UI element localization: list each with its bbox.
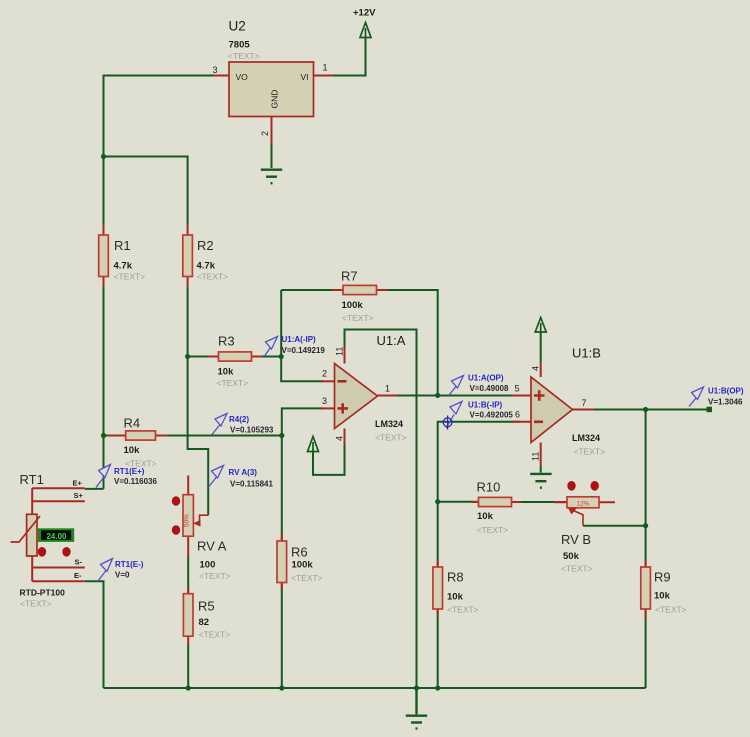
node rail/R2 branch bbox=[101, 154, 106, 159]
pin U2.2 bbox=[271, 117, 273, 144]
resistor R10 bbox=[479, 497, 512, 506]
svg-text:3: 3 bbox=[322, 396, 327, 406]
svg-text:<TEXT>: <TEXT> bbox=[574, 447, 606, 457]
svg-text:R6: R6 bbox=[291, 545, 308, 560]
svg-text:RV B: RV B bbox=[561, 532, 591, 547]
wire bottom ground rail bbox=[104, 687, 646, 689]
wire branch rail to R2 top bbox=[104, 157, 188, 225]
wire RVB wiper to R9 rail bbox=[583, 525, 646, 527]
pin R1 stubs bbox=[103, 225, 105, 288]
arrow R4(2) bbox=[212, 425, 220, 435]
svg-text:50%: 50% bbox=[184, 514, 191, 527]
wire R2 bottom down to R3 node and crossing R4 wire to RVA jog bbox=[188, 287, 209, 515]
pin U1:A.11 bbox=[344, 347, 346, 364]
op-amp U1:A bbox=[335, 364, 378, 429]
svg-text:<TEXT>: <TEXT> bbox=[217, 378, 249, 388]
RVB wiper arrowhead bbox=[568, 508, 577, 515]
wire pin6 line bbox=[438, 422, 520, 502]
svg-text:3: 3 bbox=[213, 65, 218, 75]
svg-text:V=0.105293: V=0.105293 bbox=[230, 426, 274, 435]
pin U2.1 bbox=[314, 75, 334, 77]
node R5/bottom bbox=[186, 685, 191, 690]
resistor R7 bbox=[343, 285, 377, 294]
svg-text:VO: VO bbox=[236, 72, 249, 82]
wire U2 pin1 to +12V bbox=[333, 38, 366, 76]
wire R9 bottom to bottom rail bbox=[645, 609, 647, 688]
svg-text:R1: R1 bbox=[114, 238, 131, 253]
node gnd/bottom bbox=[414, 685, 419, 690]
svg-text:U1:B: U1:B bbox=[572, 346, 601, 361]
svg-text:V=0.116036: V=0.116036 bbox=[114, 477, 157, 486]
svg-text:R3: R3 bbox=[218, 334, 235, 349]
wire RVA bottom to R5 bbox=[187, 557, 189, 594]
svg-text:R4: R4 bbox=[124, 416, 141, 431]
resistor R2 bbox=[183, 235, 193, 277]
pin R6 stubs bbox=[281, 533, 283, 590]
power arrow U1:A supply bbox=[308, 437, 319, 452]
svg-text:<TEXT>: <TEXT> bbox=[199, 571, 231, 581]
opamp B minus bbox=[534, 420, 543, 423]
node rail/R4 bbox=[101, 433, 106, 438]
wire E- down bbox=[85, 581, 104, 688]
regulator U2 body bbox=[229, 62, 314, 117]
RT1 display screen bbox=[41, 530, 71, 540]
wire U1:B output bbox=[594, 409, 709, 411]
resistor R8 bbox=[433, 567, 443, 609]
pin RT1 S- bbox=[32, 567, 85, 569]
wire U2 pin3 to left rail bbox=[104, 76, 214, 489]
svg-text:V=0.115841: V=0.115841 bbox=[230, 480, 273, 489]
svg-text:RV A(3): RV A(3) bbox=[229, 468, 258, 477]
svg-text:U1:A(-IP): U1:A(-IP) bbox=[282, 335, 317, 344]
wire U1:B pin11 down bbox=[540, 466, 542, 473]
node R8/bottom bbox=[435, 685, 440, 690]
potentiometer RVA body bbox=[183, 495, 193, 537]
arrow U1:B(OP) bbox=[689, 398, 697, 407]
svg-text:5: 5 bbox=[515, 384, 520, 394]
arrow RV A(3) bbox=[209, 477, 217, 487]
svg-text:S+: S+ bbox=[74, 491, 84, 500]
opamp A plus bbox=[338, 403, 349, 413]
svg-text:7805: 7805 bbox=[229, 40, 251, 51]
power arrow +12V bbox=[360, 23, 371, 38]
opamp A minus bbox=[338, 380, 347, 383]
svg-text:R10: R10 bbox=[477, 480, 501, 495]
node RVB wiper bbox=[643, 523, 648, 528]
RT1 red dot 2 bbox=[62, 547, 70, 557]
node pin6/R10/R8 bbox=[435, 499, 440, 504]
pin R7 stubs bbox=[332, 289, 388, 291]
wire U1:A pin4 to power arrow bbox=[313, 440, 345, 475]
svg-text:V=0: V=0 bbox=[115, 571, 130, 580]
pin RT1 S+ bbox=[32, 500, 85, 502]
node R2/R3 bbox=[185, 354, 190, 359]
wire U1:A pin11 to ground rail bbox=[345, 330, 417, 689]
arrow U1:A(-IP) bbox=[265, 348, 271, 357]
COMPONENT BODIES bbox=[27, 62, 651, 636]
wire U1:B pin4 up bbox=[540, 332, 542, 363]
wire R10 to RVB bbox=[512, 501, 568, 503]
svg-text:10k: 10k bbox=[477, 511, 494, 522]
svg-text:S-: S- bbox=[75, 558, 83, 567]
PROBE LABELS bbox=[114, 335, 744, 580]
svg-text:<TEXT>: <TEXT> bbox=[655, 605, 687, 615]
resistor R1 bbox=[99, 235, 109, 277]
svg-text:10k: 10k bbox=[218, 367, 235, 378]
pin U1:B.5 bbox=[512, 395, 532, 397]
svg-text:11: 11 bbox=[531, 452, 541, 461]
RVB red dot 1 bbox=[567, 481, 575, 491]
svg-text:<TEXT>: <TEXT> bbox=[228, 51, 260, 61]
wire U2 pin2 to ground bbox=[271, 144, 273, 169]
svg-text:24.00: 24.00 bbox=[46, 532, 67, 541]
svg-text:6: 6 bbox=[515, 410, 520, 420]
svg-text:10k: 10k bbox=[654, 591, 671, 602]
svg-text:E-: E- bbox=[74, 571, 82, 580]
svg-text:RV A: RV A bbox=[197, 539, 227, 554]
arrow U1:B(-IP) bbox=[446, 415, 454, 429]
wire pin3 branch bbox=[282, 408, 323, 435]
svg-text:<TEXT>: <TEXT> bbox=[375, 433, 407, 443]
op-amp U1:B bbox=[531, 377, 573, 443]
svg-text:100: 100 bbox=[200, 560, 216, 571]
pin RT1 verticals bbox=[31, 488, 33, 581]
pin U1:A.2 bbox=[321, 380, 335, 382]
node R6/bottom bbox=[279, 685, 284, 690]
RTD RT1 body bbox=[27, 514, 37, 556]
potentiometer RVB body bbox=[567, 497, 599, 508]
probe circle U1:B(-IP) bbox=[443, 418, 452, 427]
svg-text:R7: R7 bbox=[341, 269, 358, 284]
opamp B plus bbox=[534, 390, 545, 400]
PIN STUBS (dark red) bbox=[32, 76, 645, 645]
wire R8 vertical bbox=[437, 502, 439, 688]
wire E+ to rail bbox=[85, 488, 104, 490]
wire R7 horizontal left bbox=[281, 289, 343, 291]
svg-text:82: 82 bbox=[199, 617, 210, 628]
wire R3 right to R7/pin2 node bbox=[252, 356, 282, 358]
RVA wiper arrowhead bbox=[193, 520, 201, 527]
svg-text:V=1.3046: V=1.3046 bbox=[708, 398, 743, 407]
RVA red dot 1 bbox=[172, 496, 180, 506]
svg-text:+12V: +12V bbox=[353, 8, 376, 19]
resistor R9 bbox=[641, 567, 651, 609]
wire U1:A output to U1:B pin5 bbox=[378, 395, 521, 397]
wire R7 left vertical bbox=[280, 290, 282, 357]
svg-text:U1:A(OP): U1:A(OP) bbox=[468, 374, 504, 383]
svg-text:<TEXT>: <TEXT> bbox=[561, 564, 593, 574]
svg-text:R9: R9 bbox=[654, 570, 671, 585]
svg-text:V=0.49008: V=0.49008 bbox=[470, 384, 509, 393]
svg-text:VI: VI bbox=[301, 72, 309, 82]
RT1 red dot 1 bbox=[38, 547, 46, 557]
RTD diagonal symbol bbox=[11, 516, 41, 542]
svg-text:LM324: LM324 bbox=[572, 433, 600, 443]
resistor R3 bbox=[219, 352, 252, 361]
svg-text:<TEXT>: <TEXT> bbox=[197, 272, 229, 282]
pin RVA stubs bbox=[187, 476, 189, 557]
svg-text:<TEXT>: <TEXT> bbox=[20, 599, 52, 609]
pin R10 stubs bbox=[472, 501, 522, 503]
svg-text:<TEXT>: <TEXT> bbox=[291, 573, 323, 583]
resistor R5 bbox=[183, 594, 193, 637]
pin R4 stubs bbox=[107, 435, 168, 437]
svg-text:R5: R5 bbox=[198, 599, 215, 614]
svg-text:7: 7 bbox=[582, 398, 587, 408]
pin U1:B.7 bbox=[573, 409, 595, 411]
svg-text:11: 11 bbox=[335, 347, 345, 356]
pin U1:B.11 bbox=[540, 443, 542, 467]
ground bottom rail bbox=[406, 688, 427, 729]
svg-text:RT1: RT1 bbox=[20, 472, 44, 487]
RVB red dot 2 bbox=[591, 481, 599, 491]
pin R8 stubs bbox=[437, 560, 439, 617]
svg-text:100k: 100k bbox=[292, 560, 314, 571]
wire R3 node to R3 left bbox=[188, 356, 219, 358]
svg-text:4: 4 bbox=[531, 366, 541, 371]
svg-text:R8: R8 bbox=[447, 570, 464, 585]
svg-text:V=0.492005: V=0.492005 bbox=[470, 411, 514, 420]
svg-text:100k: 100k bbox=[342, 300, 364, 311]
pin R3 stubs bbox=[208, 356, 262, 358]
svg-text:2: 2 bbox=[322, 369, 327, 379]
wire R10 branch bbox=[438, 501, 479, 503]
resistor R4 bbox=[126, 431, 156, 440]
svg-text:U2: U2 bbox=[229, 19, 246, 34]
node U1:B out bbox=[643, 407, 648, 412]
pin RVB stubs bbox=[554, 501, 615, 503]
svg-text:V=0.149219: V=0.149219 bbox=[282, 346, 326, 355]
wire node to opamp pin2 bbox=[281, 357, 323, 382]
svg-text:<TEXT>: <TEXT> bbox=[447, 605, 479, 615]
pin R5 stubs bbox=[187, 588, 189, 645]
svg-text:1: 1 bbox=[323, 63, 328, 73]
svg-text:4.7k: 4.7k bbox=[197, 261, 216, 272]
svg-text:10k: 10k bbox=[447, 592, 464, 603]
svg-text:RT1(E+): RT1(E+) bbox=[114, 467, 145, 476]
svg-text:U1:B(OP): U1:B(OP) bbox=[708, 387, 744, 396]
PROBE ARROWS bbox=[96, 337, 704, 582]
svg-text:<TEXT>: <TEXT> bbox=[199, 630, 231, 640]
arrow RT1(E+) bbox=[96, 477, 104, 488]
pin R2 stubs bbox=[187, 225, 189, 288]
pin RT1 E+ bbox=[32, 487, 85, 489]
svg-text:2: 2 bbox=[260, 131, 270, 136]
node output end terminal bbox=[707, 407, 713, 413]
svg-text:1: 1 bbox=[385, 384, 390, 394]
node R4/pin3/R6 bbox=[279, 433, 284, 438]
svg-text:<TEXT>: <TEXT> bbox=[342, 313, 374, 323]
arrow RT1(E-) bbox=[98, 571, 106, 582]
svg-text:4.7k: 4.7k bbox=[114, 261, 133, 272]
ground under U1:B bbox=[530, 474, 551, 488]
wire R7 right to feedback down bbox=[377, 290, 438, 395]
RT1 display frame bbox=[38, 528, 74, 542]
svg-text:RTD-PT100: RTD-PT100 bbox=[20, 588, 66, 598]
svg-text:GND: GND bbox=[270, 90, 280, 109]
svg-text:10k: 10k bbox=[124, 445, 141, 456]
svg-text:LM324: LM324 bbox=[375, 419, 403, 429]
RVA wiper lead bbox=[196, 515, 209, 523]
svg-text:4: 4 bbox=[335, 436, 345, 441]
svg-text:12%: 12% bbox=[577, 502, 590, 508]
svg-text:U1:B(-IP): U1:B(-IP) bbox=[468, 401, 503, 410]
pin U1:A.4 bbox=[344, 429, 346, 446]
pin R9 stubs bbox=[645, 560, 647, 620]
wire R4 node down to R6 and bottom bbox=[281, 436, 283, 689]
node output/feedback bbox=[435, 393, 440, 398]
svg-text:<TEXT>: <TEXT> bbox=[477, 525, 509, 535]
node R3/R7/pin2 bbox=[279, 354, 284, 359]
wire R5 bottom bbox=[187, 645, 189, 689]
svg-text:R2: R2 bbox=[197, 238, 214, 253]
wire output node down through RVB node to R9 bbox=[645, 410, 647, 568]
svg-text:E+: E+ bbox=[73, 479, 83, 488]
pin U1:A.1 bbox=[378, 395, 398, 397]
svg-text:R4(2): R4(2) bbox=[229, 415, 249, 424]
ground under U2 bbox=[261, 170, 282, 184]
svg-text:50k: 50k bbox=[563, 551, 580, 562]
wire R4 line bbox=[104, 435, 282, 437]
pin U1:A.3 bbox=[321, 407, 335, 409]
arrow U1:A(OP) bbox=[450, 387, 457, 395]
power arrow U1:B supply bbox=[535, 318, 546, 333]
svg-text:<TEXT>: <TEXT> bbox=[114, 272, 146, 282]
svg-text:RT1(E-): RT1(E-) bbox=[115, 560, 144, 569]
pin U1:B.6 bbox=[512, 421, 532, 423]
RVA red dot 2 bbox=[172, 525, 180, 535]
pin U2.3 bbox=[214, 75, 230, 77]
svg-text:U1:A: U1:A bbox=[377, 333, 406, 348]
resistor R6 bbox=[277, 541, 287, 583]
pin RT1 E- bbox=[32, 580, 85, 582]
RVB wiper lead bbox=[572, 510, 583, 526]
pin U1:B.4 bbox=[540, 363, 542, 378]
